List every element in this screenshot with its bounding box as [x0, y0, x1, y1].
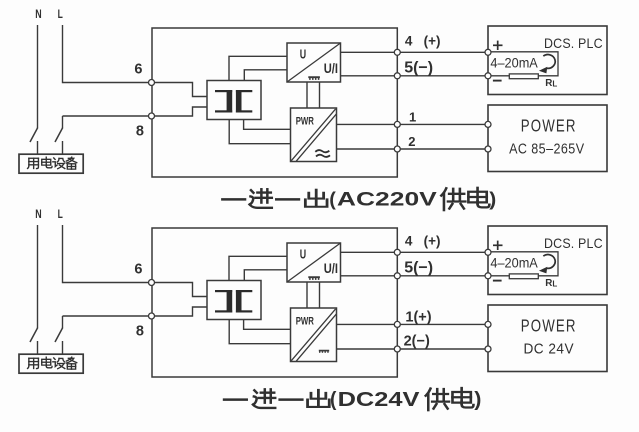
- wire to terminal 8: [63, 315, 152, 317]
- wire PWR to terminal 2: [337, 148, 489, 150]
- wire terminal 6 to CT: [152, 283, 208, 297]
- current direction arrow: [543, 55, 555, 69]
- wire terminal 6 to CT: [152, 83, 208, 97]
- DCS plus terminal mark: [493, 244, 503, 246]
- transducer outer box: [152, 228, 397, 377]
- U/I converter diagonal: [287, 43, 341, 82]
- svg-text:U: U: [300, 247, 306, 262]
- svg-text:4–20mA: 4–20mA: [490, 56, 538, 71]
- load box label 用电设备: [28, 158, 39, 168]
- svg-text:AC220V: AC220V: [337, 189, 437, 211]
- DCS PLC box: [488, 226, 607, 295]
- DCS PLC box: [488, 26, 607, 95]
- svg-text:1: 1: [409, 109, 416, 124]
- terminal 6: [149, 80, 155, 86]
- wire terminal 8 to CT: [152, 307, 208, 316]
- terminal 4: [394, 49, 400, 55]
- wire to terminal 8: [63, 115, 152, 117]
- terminal 5: [394, 273, 400, 279]
- wire L lower segment: [62, 116, 64, 128]
- power module diagonal band: [291, 309, 335, 361]
- svg-text:(: (: [330, 389, 337, 411]
- svg-text:4–20mA: 4–20mA: [490, 256, 538, 271]
- wire L vertical: [62, 225, 64, 283]
- current transformer T1 winding symbol: [215, 290, 252, 313]
- wire terminal 8 to CT: [152, 107, 208, 116]
- U/I converter isolation comb symbol: [308, 276, 320, 278]
- current transformer T1 winding symbol: [215, 90, 252, 113]
- POWER terminal b: [485, 146, 491, 152]
- current transformer T1 box: [207, 81, 261, 120]
- svg-text:L: L: [58, 207, 63, 221]
- wire CT to PWR module b: [229, 120, 290, 144]
- svg-text:N: N: [35, 207, 41, 221]
- svg-text:6: 6: [134, 61, 142, 77]
- svg-text:L: L: [552, 280, 557, 289]
- svg-text:DCS. PLC: DCS. PLC: [544, 35, 603, 51]
- terminal 1: [394, 121, 400, 127]
- wire U/I to PWR link a: [306, 282, 308, 308]
- DCS minus terminal mark: [493, 280, 502, 282]
- wire CT to U/I converter input b: [244, 270, 287, 281]
- svg-text:2: 2: [408, 134, 415, 149]
- POWER box: [488, 305, 607, 372]
- U/I converter U1 box: [287, 243, 341, 282]
- svg-text:U: U: [300, 47, 306, 62]
- switch S2 blade (L line): [55, 328, 63, 342]
- svg-text:2(−): 2(−): [404, 334, 430, 350]
- terminal 4: [394, 249, 400, 255]
- svg-text:5(−): 5(−): [404, 260, 433, 277]
- terminal 5: [394, 73, 400, 79]
- svg-text:): ): [474, 389, 481, 411]
- DCS terminal -: [485, 273, 491, 279]
- svg-text:8: 8: [136, 123, 144, 139]
- svg-text:(: (: [329, 189, 336, 211]
- terminal 8: [149, 313, 155, 319]
- svg-text:PWR: PWR: [296, 316, 314, 328]
- wire N switch to load box: [37, 141, 39, 154]
- svg-text:U/I: U/I: [324, 261, 338, 276]
- svg-text:N: N: [35, 7, 41, 21]
- svg-text:PWR: PWR: [296, 116, 314, 128]
- wire U/I to PWR link b: [319, 282, 321, 308]
- power module PWR box: [291, 308, 337, 362]
- wire CT to PWR module a: [244, 120, 291, 130]
- wire L lower segment: [62, 316, 64, 328]
- POWER terminal a: [485, 121, 491, 127]
- switch S1 blade (N line): [30, 328, 38, 342]
- load box 用电设备 (electrical equipment): [19, 154, 83, 173]
- wire U/I output to terminal 4: [341, 251, 489, 253]
- wire to terminal 6: [63, 282, 152, 284]
- svg-text:5(−): 5(−): [404, 60, 433, 77]
- wire U/I output to terminal 4: [341, 51, 489, 53]
- wire to terminal 6: [63, 82, 152, 84]
- POWER box: [488, 105, 607, 172]
- switch S1 blade (N line): [30, 128, 38, 142]
- svg-text:POWER: POWER: [521, 115, 577, 135]
- load resistor RL: [509, 74, 538, 79]
- wire CT to PWR module b: [229, 320, 290, 344]
- DCS terminal +: [485, 249, 491, 255]
- transducer outer box: [152, 28, 397, 177]
- current loop 4-20mA box: [488, 252, 558, 276]
- current loop 4-20mA box: [488, 52, 558, 76]
- wire U/I to PWR link b: [319, 82, 321, 108]
- U/I converter U1 box: [287, 43, 341, 82]
- wire U/I output to terminal 5: [341, 275, 489, 277]
- power module AC waves symbol: [315, 150, 330, 157]
- svg-text:): ): [489, 189, 496, 211]
- svg-text:4 (+): 4 (+): [405, 34, 441, 49]
- current transformer T1 box: [207, 281, 261, 320]
- wire PWR to terminal 1: [337, 323, 489, 325]
- svg-text:L: L: [552, 80, 557, 89]
- wire CT to U/I converter input a: [229, 56, 287, 80]
- svg-text:8: 8: [136, 323, 144, 339]
- DCS terminal -: [485, 73, 491, 79]
- current direction arrow: [543, 255, 555, 269]
- svg-text:6: 6: [134, 261, 142, 277]
- POWER terminal a: [485, 321, 491, 327]
- wire U/I to PWR link a: [306, 82, 308, 108]
- svg-text:AC 85–265V: AC 85–265V: [509, 141, 584, 157]
- caption 一进一出(AC220V供电): [222, 188, 496, 211]
- wire CT to PWR module a: [244, 320, 291, 330]
- DCS terminal +: [485, 49, 491, 55]
- wire U/I output to terminal 5: [341, 75, 489, 77]
- terminal 6: [149, 280, 155, 286]
- wire PWR to terminal 1: [337, 123, 489, 125]
- POWER terminal b: [485, 346, 491, 352]
- svg-text:U/I: U/I: [324, 61, 338, 76]
- wire PWR to terminal 2: [337, 348, 489, 350]
- svg-text:DC 24V: DC 24V: [524, 341, 575, 357]
- U/I converter isolation comb symbol: [308, 76, 320, 78]
- DCS minus terminal mark: [493, 80, 502, 82]
- terminal 1: [394, 321, 400, 327]
- svg-text:DCS. PLC: DCS. PLC: [544, 235, 603, 251]
- terminal 2: [394, 346, 400, 352]
- svg-text:R: R: [545, 78, 552, 89]
- power module PWR box: [291, 108, 337, 162]
- wire N vertical: [37, 225, 39, 328]
- switch S2 blade (L line): [55, 128, 63, 142]
- terminal 2: [394, 146, 400, 152]
- svg-text:DC24V: DC24V: [338, 388, 420, 411]
- wire CT to U/I converter input a: [229, 256, 287, 280]
- load box 用电设备 (electrical equipment): [19, 354, 83, 373]
- power module diagonal band: [291, 109, 335, 161]
- wire N vertical: [37, 25, 39, 128]
- DCS plus terminal mark: [493, 44, 503, 46]
- power module DC comb symbol: [319, 350, 329, 352]
- wire L switch to load box: [62, 141, 64, 154]
- svg-text:1(+): 1(+): [405, 310, 431, 326]
- load box label 用电设备: [28, 358, 39, 368]
- svg-text:L: L: [58, 7, 63, 21]
- wire CT to U/I converter input b: [244, 70, 287, 81]
- caption 一进一出(DC24V供电): [224, 388, 481, 411]
- svg-text:4 (+): 4 (+): [405, 234, 441, 249]
- load resistor RL: [509, 274, 538, 279]
- wire N switch to load box: [37, 341, 39, 354]
- wire L vertical: [62, 25, 64, 83]
- terminal 8: [149, 113, 155, 119]
- U/I converter diagonal: [287, 243, 341, 282]
- svg-text:POWER: POWER: [521, 315, 577, 335]
- wire L switch to load box: [62, 341, 64, 354]
- svg-text:R: R: [545, 278, 552, 289]
